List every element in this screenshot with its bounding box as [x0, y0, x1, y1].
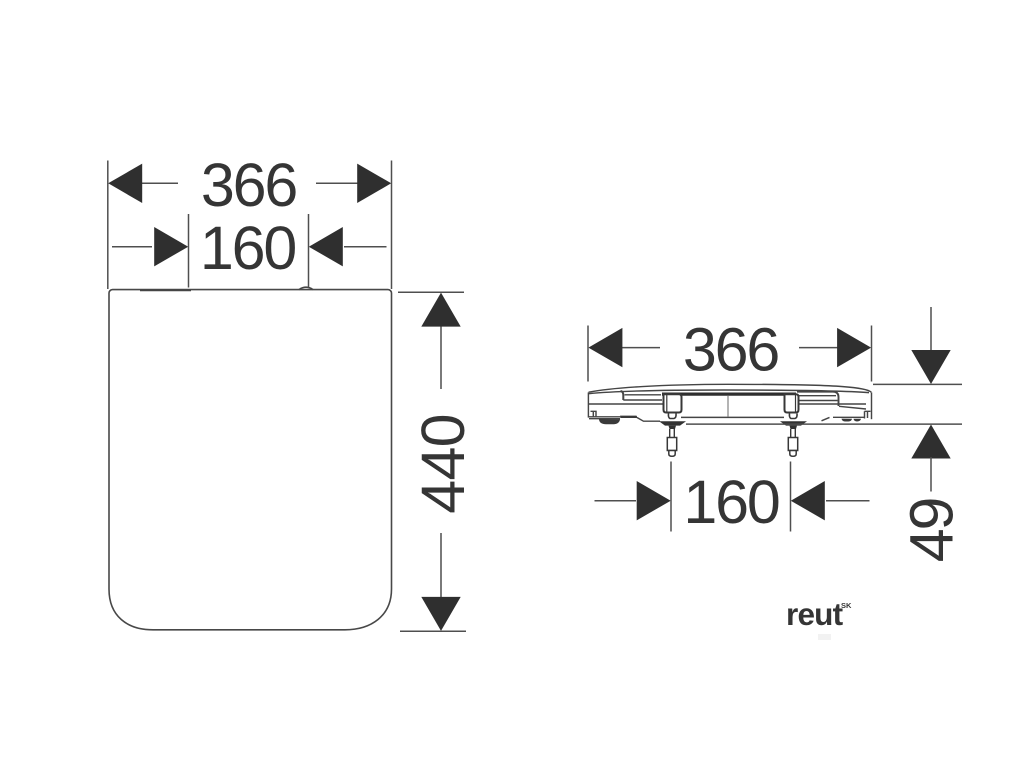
side view left edge [587, 392, 589, 417]
dim 160 right arrowhead pointing left [791, 481, 825, 520]
side view dark gap band between seat and lid [662, 393, 796, 396]
right bolt sleeve [788, 438, 797, 451]
side view seat ring bottom line between hinges [681, 416, 784, 418]
side view bottom small hook bracket left [591, 411, 597, 417]
svg-text:49: 49 [898, 499, 966, 563]
side view center seam [727, 396, 729, 417]
side view seat upper edge line from step [623, 399, 662, 401]
left bolt shaft [670, 429, 675, 438]
right bolt shaft [791, 429, 796, 438]
dim 440 arrowhead up [421, 293, 460, 327]
dim 49 upper dimension line [930, 307, 932, 352]
seat top-view outline [109, 290, 392, 630]
right washer [780, 421, 807, 425]
dim 366 right extension line (right) [871, 326, 873, 382]
dim 366 left dimension line segments [140, 182, 358, 184]
left bolt tip [669, 451, 675, 457]
dim 440 bottom extension line [400, 630, 466, 632]
side view bottom step diagonal right [822, 417, 830, 420]
dim 49 arrowhead up [911, 425, 950, 459]
side view bottom segment under dark patch [620, 416, 637, 418]
dim 366 left arrowhead left [108, 164, 142, 203]
side view outer top arc [589, 384, 872, 392]
dim 49 upper reference line [873, 383, 962, 385]
dim 366 left extension line (right) [391, 161, 393, 290]
side view lid back rounded edge [797, 392, 839, 406]
left bolt nut [669, 426, 677, 429]
dim 366 left arrowhead right [357, 164, 391, 203]
dim 366 left extension line (left) [107, 161, 109, 290]
side view bottom step diagonal left [637, 418, 660, 422]
right bolt nut [790, 426, 798, 429]
right hinge block [785, 394, 799, 412]
dim 160 left arrowhead pointing left [309, 227, 343, 266]
svg-text:SK: SK [841, 601, 852, 610]
left washer [659, 421, 686, 425]
dim 366 right arrowhead right [837, 328, 871, 367]
side view left lid zone inner line [625, 394, 662, 396]
side view right bumper feet [842, 419, 862, 422]
dim 160 right extension line (left) [670, 462, 672, 532]
svg-text:366: 366 [683, 316, 778, 384]
svg-text:reut: reut [786, 596, 844, 632]
dim 160 left extension line (right) [308, 214, 310, 288]
dim 366 right dimension line segments [621, 347, 840, 349]
dim 160 right arrowhead pointing right [637, 481, 671, 520]
side view full-length mid line [588, 403, 866, 405]
seat top edge hinge bump [299, 287, 313, 289]
dim 160 right extension line (right) [790, 462, 792, 532]
side view dark patch left of step [620, 416, 638, 418]
side view lid back inner lines [798, 396, 866, 409]
dim 440 dimension line segments [440, 325, 442, 598]
faint watermark remnant [818, 634, 831, 640]
dim 160 right dimension line segments [595, 500, 870, 502]
left hinge block [664, 394, 682, 412]
side view bottom right hook bracket [865, 411, 871, 418]
dim 366 right extension line (left) [587, 326, 589, 382]
side view left bumper foot [600, 420, 620, 424]
side view bottom line right [833, 416, 864, 418]
side view lid front step [621, 391, 624, 400]
seat top edge hinge seam segment [140, 289, 191, 291]
dim 440 arrowhead down [421, 597, 460, 631]
dim 160 left dimension line segments [112, 246, 387, 248]
side view bottom edge left [589, 418, 620, 420]
side view lid lower edge line [589, 390, 869, 394]
svg-text:160: 160 [200, 214, 295, 282]
svg-text:160: 160 [683, 468, 778, 536]
left hinge neck [668, 414, 676, 419]
dim 49 lower reference line [686, 423, 962, 425]
dim 440 top extension line [398, 291, 464, 293]
dim 49 arrowhead down [911, 350, 950, 384]
dim 160 left extension line (left) [188, 214, 190, 288]
dim 366 right arrowhead left [588, 328, 622, 367]
dim 160 left arrowhead pointing right [154, 227, 188, 266]
dim 49 lower dimension line [930, 457, 932, 492]
side view nose lower line [588, 416, 620, 418]
side view right edge [871, 392, 873, 419]
right hinge neck [789, 414, 797, 419]
svg-text:366: 366 [201, 151, 296, 219]
left bolt sleeve [667, 438, 676, 451]
right bolt tip [790, 451, 796, 457]
svg-text:440: 440 [409, 414, 477, 513]
